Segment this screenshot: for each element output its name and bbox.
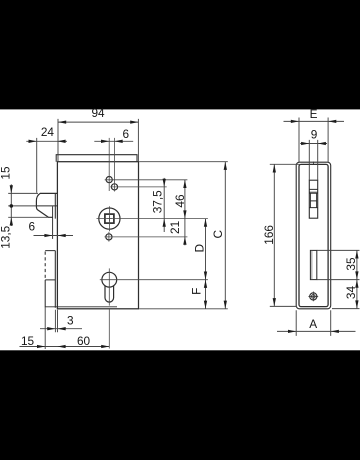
svg-text:24: 24 [41, 125, 55, 139]
svg-text:A: A [309, 317, 317, 331]
svg-text:6: 6 [123, 127, 130, 141]
svg-text:166: 166 [262, 225, 276, 245]
svg-text:F: F [190, 288, 204, 295]
svg-text:21: 21 [168, 221, 182, 234]
svg-text:3: 3 [67, 314, 74, 328]
svg-text:15: 15 [0, 166, 13, 180]
svg-text:D: D [192, 244, 206, 253]
svg-text:37,5: 37,5 [150, 190, 164, 213]
svg-text:35: 35 [344, 257, 358, 271]
svg-text:C: C [211, 229, 225, 238]
svg-text:46: 46 [173, 194, 187, 208]
svg-text:E: E [310, 107, 318, 121]
svg-text:13,5: 13,5 [0, 225, 13, 248]
svg-text:60: 60 [77, 334, 91, 348]
svg-text:94: 94 [91, 106, 105, 120]
svg-text:15: 15 [21, 334, 35, 348]
svg-text:34: 34 [344, 286, 358, 300]
svg-text:6: 6 [29, 220, 36, 234]
svg-text:9: 9 [311, 127, 318, 141]
